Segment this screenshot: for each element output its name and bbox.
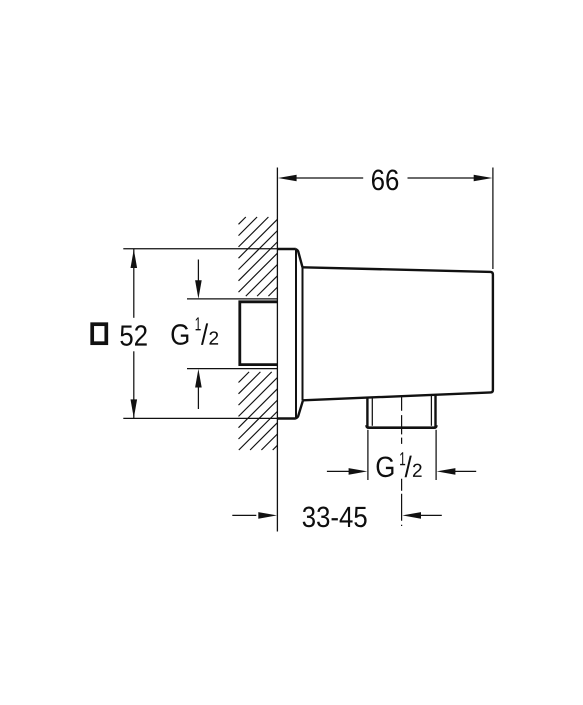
body outline [303, 267, 493, 400]
flange rear silhouette [302, 267, 304, 400]
outlet label sup 1 [400, 452, 405, 465]
thread crest line bottom [187, 368, 277, 370]
outlet G dim extension left [367, 430, 369, 480]
outlet G dim line right [453, 470, 476, 472]
outlet centerline [401, 396, 403, 445]
square symbol [92, 324, 106, 343]
thread label G [172, 324, 189, 345]
dimension 52 arrow top [131, 249, 138, 268]
outlet label sub 2 [413, 464, 422, 477]
thread label sub 2 [209, 331, 218, 344]
flange top chamfer [296, 249, 303, 267]
thread body behind wall [240, 302, 278, 365]
outlet nipple thread root right [430, 395, 432, 426]
flange bottom chamfer [296, 400, 303, 418]
thread label sup 1 [196, 317, 201, 330]
outlet G dim line left [327, 470, 351, 472]
dimension 52 text [120, 325, 146, 346]
dimension 52 extension line top [123, 248, 277, 250]
dimension 52 extension line bottom [123, 417, 277, 419]
dimension 66 text [372, 170, 398, 191]
outlet label G [377, 456, 394, 477]
flange bottom edge [277, 417, 295, 419]
dim 33-45 text [303, 507, 367, 528]
outlet nipple thread root left [371, 397, 373, 426]
dimension 66 arrow right [474, 175, 493, 182]
thread arrow top [197, 260, 199, 282]
outlet G dim extension right [435, 430, 437, 480]
dimension 66 extension line right [492, 168, 494, 270]
dim 33-45 line left [232, 514, 256, 516]
outlet nipple bottom [367, 425, 437, 428]
wall hatching upper [239, 217, 278, 296]
thread label slash [201, 323, 208, 345]
dimension 52 line [133, 249, 135, 318]
wall hatching lower [239, 372, 278, 450]
flange front face [295, 250, 297, 419]
flange top edge [277, 248, 295, 250]
outlet nipple outer right [434, 395, 436, 427]
dimension 66 line [296, 177, 364, 179]
thread crest line top [187, 298, 277, 300]
dimension 52 arrow bottom [131, 399, 138, 418]
wall face line [276, 168, 278, 532]
outlet label slash [405, 456, 412, 478]
thread arrow bottom [197, 386, 199, 409]
dimension 66 arrow left [278, 175, 297, 182]
outlet nipple outer left [366, 397, 368, 427]
dim 33-45 line right [419, 514, 442, 516]
